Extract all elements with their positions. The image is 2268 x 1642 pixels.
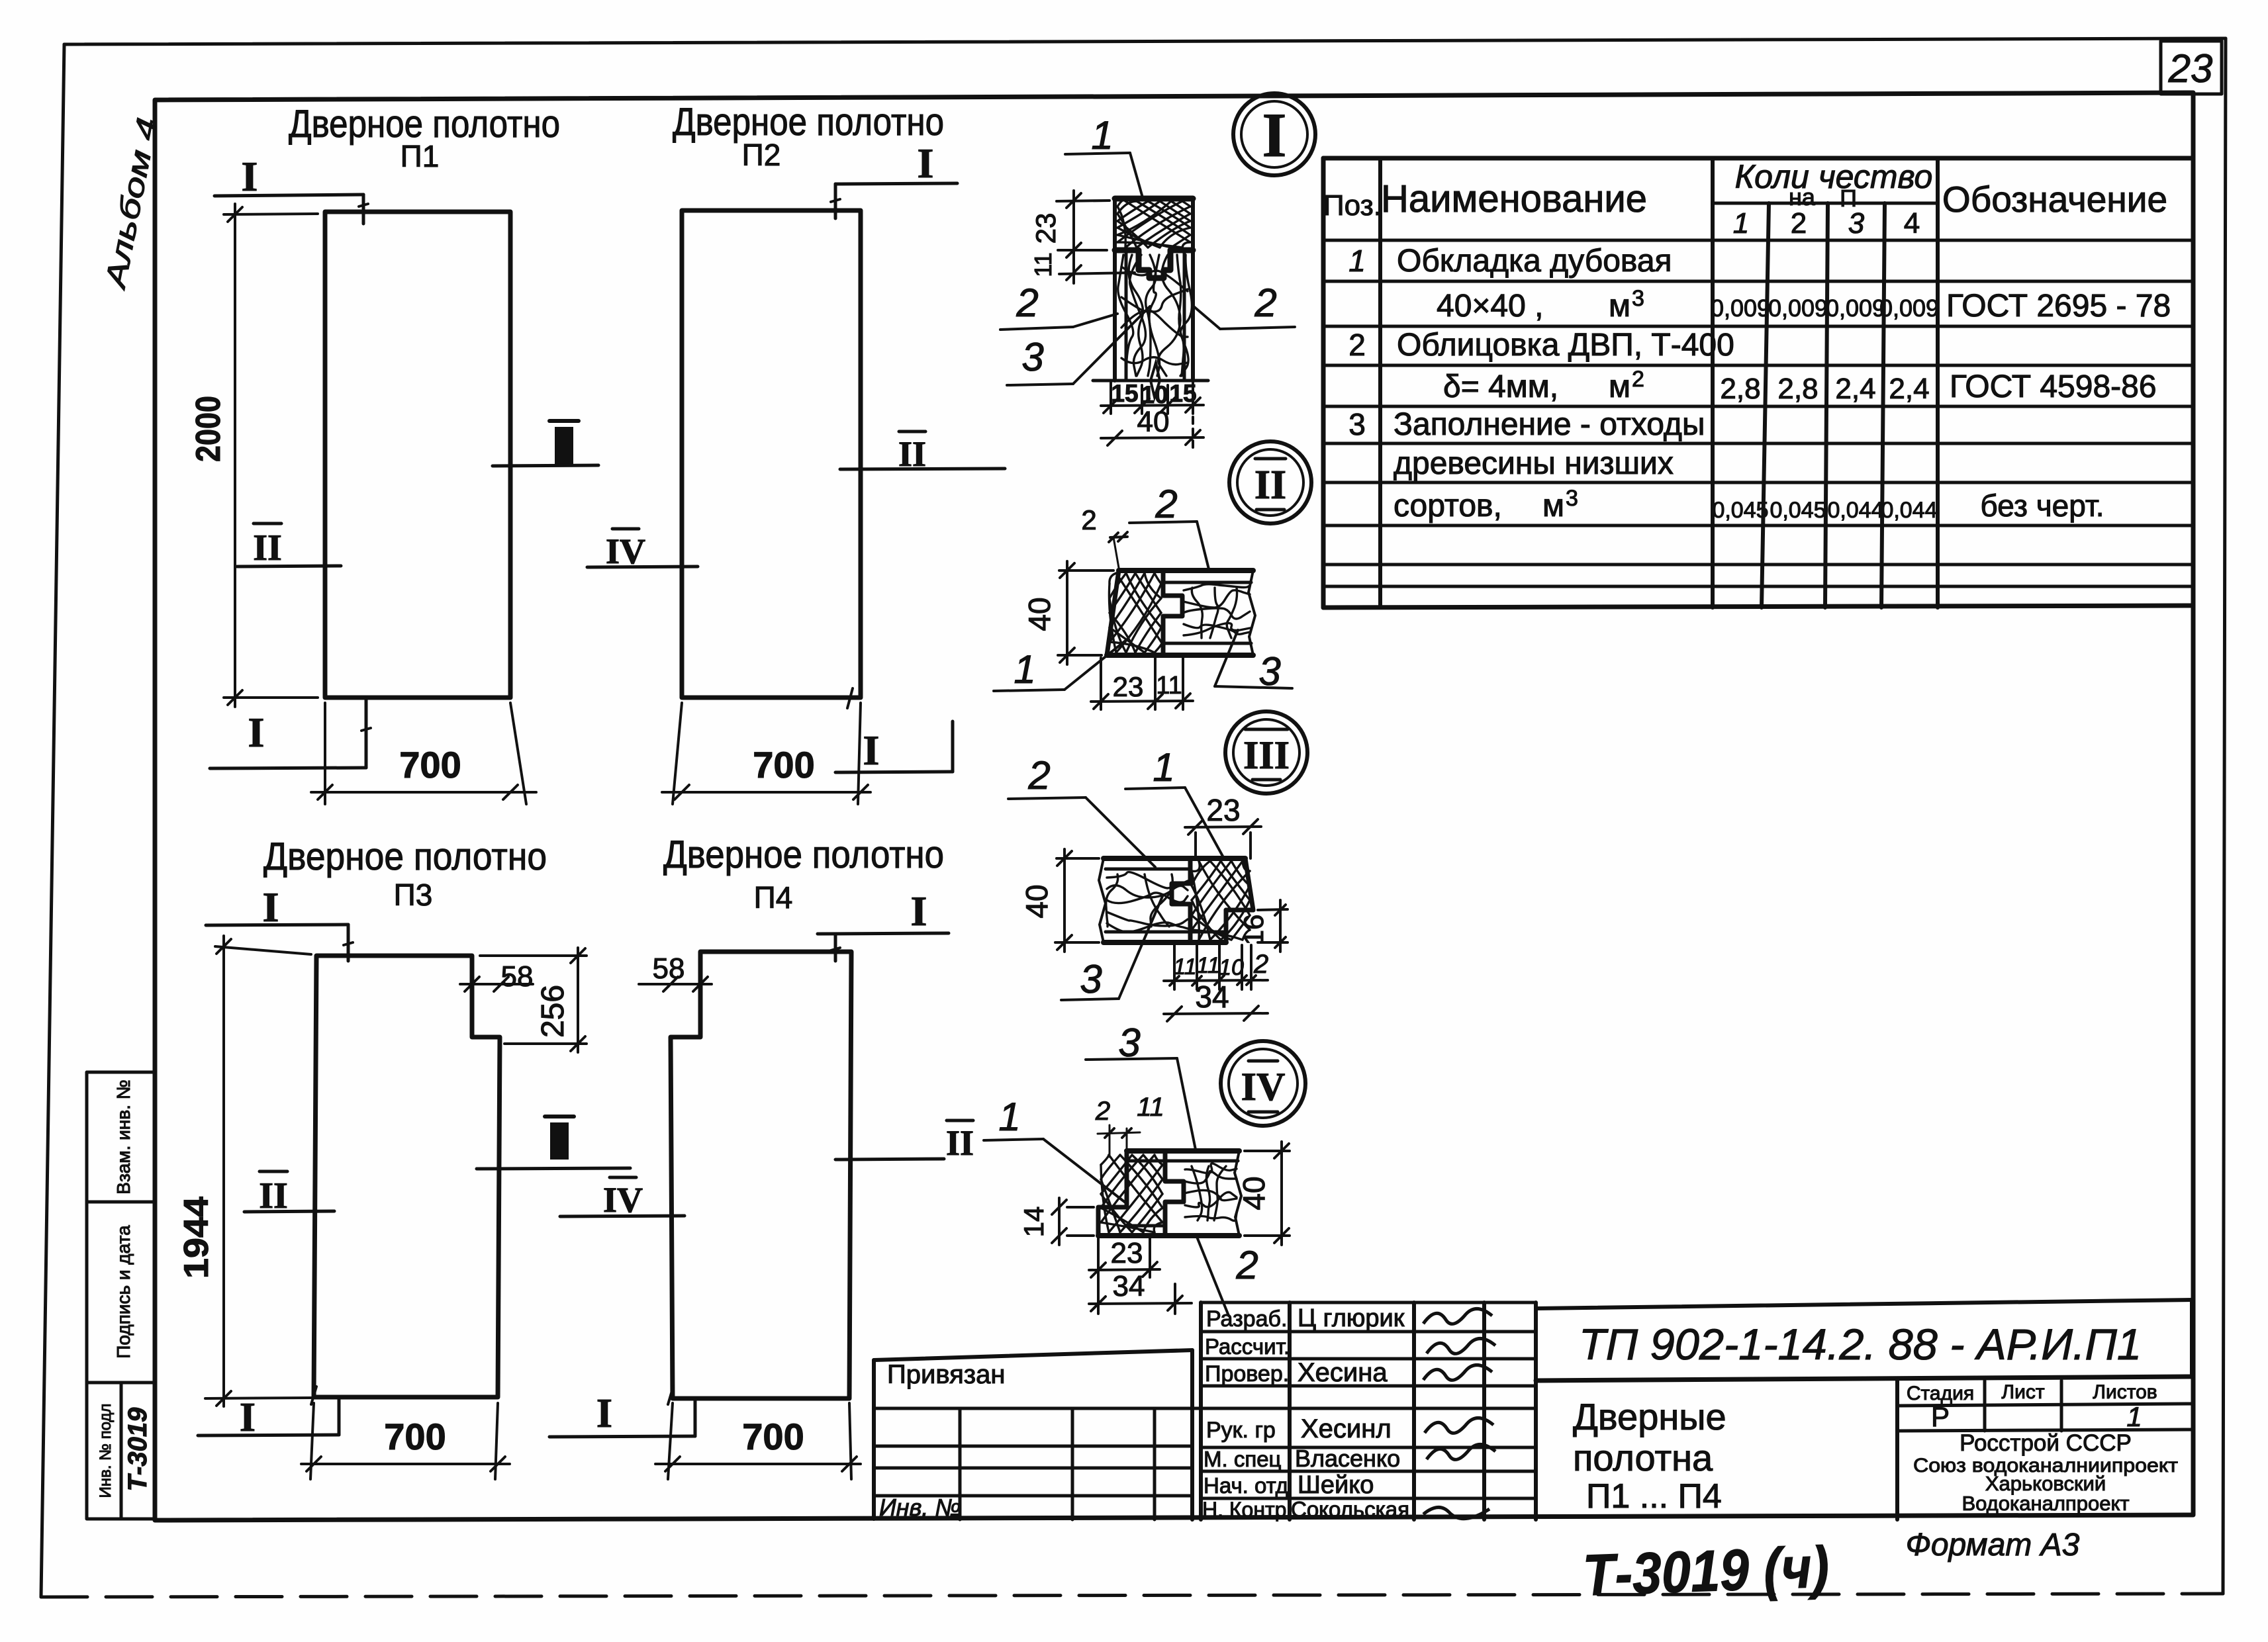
detail IV dims 2 and 11 (1095, 1093, 1164, 1157)
svg-text:23: 23 (1111, 1237, 1143, 1269)
svg-text:40: 40 (1022, 597, 1057, 631)
svg-text:2: 2 (1235, 1243, 1258, 1287)
detail I cap crosshatch grain (1117, 200, 1190, 248)
svg-text:10: 10 (1141, 381, 1168, 408)
svg-text:0,044: 0,044 (1881, 498, 1937, 523)
svg-text:11: 11 (1137, 1093, 1164, 1122)
table row 2: 40x40 м3 with quantities and ГОСТ 2695-78 (1437, 286, 2171, 324)
section mark II (П2) (840, 432, 1005, 474)
detail IV dim 14 (1018, 1198, 1094, 1245)
svg-text:Провер.: Провер. (1205, 1361, 1289, 1387)
svg-text:15: 15 (1169, 380, 1196, 407)
svg-text:Коли чество: Коли чество (1735, 158, 1933, 195)
left column box (87, 1072, 155, 1519)
привязн box (874, 1350, 1201, 1520)
svg-text:Обозначение: Обозначение (1942, 179, 2167, 220)
svg-text:2000: 2000 (189, 396, 228, 462)
svg-text:23: 23 (1030, 213, 1061, 244)
label Инв. № подл (97, 1404, 115, 1498)
detail II block outline (1107, 570, 1255, 655)
outer border bottom (dashed) (41, 1594, 2223, 1597)
стадия лист листов headers (1907, 1381, 2157, 1432)
detail II dim 2 (1081, 504, 1127, 568)
detail IV filling grain (1185, 1163, 1237, 1221)
svg-text:Взам. инв. №: Взам. инв. № (113, 1079, 134, 1194)
svg-text:полотна: полотна (1573, 1437, 1713, 1479)
detail I leader 2 right (1193, 281, 1295, 329)
section mark II (П3) (244, 1171, 334, 1216)
door П4 title (663, 833, 944, 915)
svg-text:700: 700 (384, 1416, 446, 1457)
section mark II (П1) (237, 524, 341, 569)
svg-text:Формат А3: Формат А3 (1906, 1528, 2080, 1563)
svg-text:23: 23 (1113, 671, 1144, 702)
svg-text:Дверное полотно: Дверное полотно (673, 101, 944, 144)
svg-text:I: I (1262, 100, 1287, 170)
section mark I top (П2) (831, 140, 957, 218)
handwritten Т-3019 (rotated) (123, 1407, 152, 1491)
section mark I bottom (П3) (198, 1387, 339, 1440)
svg-text:2: 2 (1348, 328, 1366, 362)
detail II oak grain (1109, 573, 1162, 653)
section mark IV (П3/П4) (560, 1177, 685, 1220)
svg-text:ТП 902-1-14.2. 88 - АР.И.П1: ТП 902-1-14.2. 88 - АР.И.П1 (1579, 1320, 2142, 1369)
detail I oak cap with T-groove (1115, 250, 1193, 278)
stamp signatures (1423, 1308, 1495, 1518)
section mark III filled (П3) (477, 1117, 630, 1169)
table row 5: Заполнение - отходы (1348, 407, 1705, 442)
svg-text:древесины низших: древесины низших (1394, 446, 1674, 481)
drawing title Дверные полотна П1...П4 (1573, 1396, 1726, 1516)
svg-text:2: 2 (1254, 281, 1276, 325)
door П2 title (673, 101, 944, 172)
outer border left (41, 44, 64, 1597)
svg-text:П1: П1 (401, 139, 440, 173)
svg-text:Инв. №: Инв. № (879, 1494, 961, 1521)
svg-text:23: 23 (1206, 793, 1240, 827)
svg-text:Хесинл: Хесинл (1301, 1414, 1392, 1443)
detail IV oak piece with tenon (1165, 1152, 1184, 1234)
svg-text:1: 1 (998, 1095, 1020, 1139)
svg-text:Подпись и дата: Подпись и дата (113, 1225, 134, 1359)
svg-text:Наименование: Наименование (1381, 177, 1647, 220)
detail IV leader 3 (1086, 1021, 1196, 1150)
detail I body wood grain (1118, 255, 1192, 376)
svg-text:м: м (1609, 369, 1630, 404)
svg-text:11: 11 (1196, 953, 1219, 978)
svg-text:700: 700 (399, 744, 461, 786)
svg-text:П4: П4 (754, 880, 793, 915)
door П1 outline (325, 212, 510, 698)
detail III block outline (1099, 858, 1253, 942)
svg-text:Хесина: Хесина (1298, 1358, 1388, 1387)
dimension 58 (П3 notch width) (460, 960, 533, 993)
svg-text:Нач. отд: Нач. отд (1204, 1473, 1288, 1498)
svg-text:I: I (596, 1391, 612, 1436)
svg-text:3: 3 (1848, 207, 1865, 240)
svg-text:700: 700 (742, 1416, 804, 1457)
svg-text:0,045: 0,045 (1770, 498, 1826, 523)
svg-text:2: 2 (1632, 367, 1644, 392)
svg-text:IV: IV (1241, 1065, 1286, 1109)
svg-text:I: I (248, 709, 265, 756)
label Взам. инв. № (113, 1079, 134, 1194)
detail IV oak grain (1101, 1155, 1162, 1232)
svg-text:Поз.: Поз. (1323, 189, 1382, 222)
door П3 title (263, 835, 547, 912)
svg-text:3: 3 (1566, 486, 1578, 511)
svg-text:0,009: 0,009 (1826, 295, 1885, 322)
detail IV block outline (1098, 1151, 1241, 1236)
section detail I circled label (1233, 93, 1315, 175)
detail I dim 40 (1101, 406, 1204, 449)
svg-text:1944: 1944 (177, 1197, 216, 1279)
svg-text:1: 1 (1733, 207, 1749, 240)
table header Поз. (1323, 189, 1382, 222)
svg-text:2: 2 (1155, 482, 1177, 526)
section detail II circled label (1229, 441, 1311, 524)
svg-text:Дверное полотно: Дверное полотно (263, 835, 547, 878)
svg-text:Привязан: Привязан (887, 1360, 1005, 1389)
svg-text:1: 1 (1091, 113, 1113, 158)
detail IV dims 23 and 34 (1089, 1237, 1192, 1314)
detail III leader 1 (1125, 745, 1225, 860)
svg-text:Ц глюрик: Ц глюрик (1298, 1304, 1405, 1332)
detail III oak grain (1192, 861, 1250, 940)
svg-text:0,009: 0,009 (1711, 295, 1770, 322)
detail I leader 3 (1007, 306, 1150, 385)
svg-text:16: 16 (1238, 915, 1269, 946)
svg-text:2: 2 (1027, 753, 1050, 798)
dimension 2000 (П1 height) (189, 204, 318, 707)
svg-text:4: 4 (1904, 207, 1920, 240)
svg-text:2: 2 (1081, 504, 1096, 535)
svg-text:Водоканалпроект: Водоканалпроект (1961, 1492, 2129, 1515)
dimension 700 (П1 width) (311, 703, 536, 804)
table row 4: б=4мм м2 with quantities and ГОСТ 4598-86 (1443, 367, 2157, 405)
svg-text:3: 3 (1632, 286, 1644, 311)
label Подпись и дата (113, 1225, 134, 1359)
section detail III circled label (1225, 711, 1307, 794)
svg-text:М. спец: М. спец (1204, 1447, 1282, 1471)
dimension 1944 (П3 height) (177, 936, 311, 1406)
svg-text:0,009: 0,009 (1768, 295, 1828, 322)
outer border top (64, 38, 2226, 44)
svg-text:Дверное полотно: Дверное полотно (663, 833, 944, 876)
handwritten stamp Т-3019 (4) (1582, 1534, 1830, 1608)
section mark I top (П4) (818, 888, 949, 961)
table row 3: Облицовка ДВП, Т-400 (1348, 328, 1734, 363)
svg-text:40: 40 (1137, 406, 1170, 438)
table header Обозначение (1942, 179, 2167, 220)
dimension 700 (П3 width) (301, 1403, 510, 1479)
detail I leader 1 (1065, 113, 1143, 200)
detail II facing strips (1163, 582, 1251, 643)
svg-text:Росстрой СССР: Росстрой СССР (1960, 1430, 2132, 1456)
svg-text:П1 ... П4: П1 ... П4 (1586, 1477, 1722, 1516)
svg-text:на: на (1789, 183, 1816, 210)
door П4 outline (notch top-left) (671, 952, 851, 1398)
detail III facing strips (1106, 869, 1225, 932)
svg-text:ГОСТ 2695 - 78: ГОСТ 2695 - 78 (1946, 289, 2171, 324)
svg-text:II: II (1254, 463, 1286, 508)
svg-text:П3: П3 (394, 878, 433, 912)
detail III oak piece (1172, 860, 1190, 941)
album note: Альбом 4 (rotated) (99, 115, 164, 293)
svg-text:34: 34 (1195, 980, 1229, 1014)
svg-text:Листов: Листов (2093, 1381, 2157, 1403)
svg-text:Т-3019 (ч): Т-3019 (ч) (1582, 1534, 1830, 1608)
section mark II (П4) (835, 1120, 974, 1163)
svg-text:15: 15 (1111, 380, 1138, 407)
section mark I top (П1) (214, 153, 368, 224)
svg-text:Заполнение - отходы: Заполнение - отходы (1394, 407, 1705, 442)
specification table grid (1323, 158, 2193, 608)
svg-text:34: 34 (1113, 1270, 1145, 1302)
detail IV facing strips (1129, 1161, 1238, 1226)
detail IV leader 1 (984, 1095, 1125, 1203)
table header Количество на П (1735, 158, 1933, 212)
document number ТП 902-1-14.2.88-АР.И.П1 (1579, 1320, 2142, 1369)
svg-text:Рассчит.: Рассчит. (1205, 1334, 1290, 1359)
door П2 outline (682, 210, 861, 698)
svg-text:14: 14 (1018, 1207, 1049, 1238)
organization lines (1913, 1430, 2178, 1515)
section mark IV (П2) (587, 529, 698, 571)
svg-text:Шейко: Шейко (1298, 1471, 1374, 1499)
инв № label (879, 1494, 961, 1521)
svg-text:40: 40 (1237, 1176, 1271, 1210)
section mark I top (П3) (206, 884, 353, 961)
detail II leader 1 (994, 641, 1125, 692)
svg-text:Т-3019: Т-3019 (123, 1407, 152, 1491)
привязн label (887, 1360, 1005, 1389)
svg-text:II: II (253, 527, 282, 569)
svg-text:700: 700 (753, 744, 814, 786)
detail II leader 2 (1129, 482, 1209, 569)
detail II dims 23 11 (1091, 658, 1193, 709)
stamp names (1291, 1304, 1409, 1522)
svg-text:ГОСТ 4598-86: ГОСТ 4598-86 (1950, 369, 2157, 404)
section mark I bottom (П1) (210, 699, 371, 768)
detail III dim 34 (1164, 980, 1268, 1021)
table header Наименование (1381, 177, 1647, 220)
detail II dim 40 (1022, 561, 1113, 664)
svg-text:Инв. № подл: Инв. № подл (97, 1404, 115, 1498)
detail I dims 15 10 15 (1101, 380, 1204, 414)
svg-text:Обкладка дубовая: Обкладка дубовая (1397, 244, 1672, 279)
svg-text:3: 3 (1080, 957, 1102, 1001)
svg-text:2,8: 2,8 (1777, 373, 1818, 405)
svg-text:1: 1 (1153, 745, 1174, 790)
detail III dim 40 (1019, 849, 1099, 952)
svg-text:2: 2 (1253, 950, 1268, 979)
svg-text:м: м (1542, 488, 1564, 524)
svg-text:Облицовка ДВП, Т-400: Облицовка ДВП, Т-400 (1397, 328, 1734, 363)
svg-text:Разраб.: Разраб. (1206, 1306, 1287, 1332)
svg-text:0,044: 0,044 (1827, 498, 1883, 523)
detail III leader 2 (1008, 753, 1155, 867)
detail IV dim 40 (1237, 1142, 1290, 1245)
door П3 outline (notch top-right) (314, 956, 500, 1397)
dimension 58 (П4 notch width) (639, 952, 712, 991)
table row 6: древесины низших (1394, 446, 1674, 481)
table subheader 1 2 3 4 (1733, 207, 1920, 240)
dimension 256 (П3 notch height) (480, 948, 587, 1052)
svg-text:3: 3 (1021, 335, 1043, 379)
sheet number box 23 (2161, 41, 2222, 94)
svg-text:м: м (1609, 289, 1630, 324)
detail I hardboard facings (1126, 251, 1184, 379)
section mark III filled (П1) (493, 421, 598, 466)
detail I dim 23 (1030, 191, 1110, 259)
svg-text:58: 58 (653, 952, 685, 985)
svg-text:I: I (918, 140, 934, 187)
svg-text:2: 2 (1016, 281, 1038, 325)
detail III dim 23 top (1185, 793, 1261, 858)
door П1 title (289, 103, 560, 173)
svg-text:IV: IV (603, 1180, 643, 1220)
detail III dims 11 11 10 2 (1164, 945, 1268, 989)
svg-text:23: 23 (2168, 46, 2213, 91)
svg-text:1: 1 (2126, 1401, 2142, 1432)
svg-text:без черт.: без черт. (1980, 488, 2104, 523)
svg-text:Н. Контр.: Н. Контр. (1202, 1498, 1292, 1522)
dimension 700 (П2 width) (662, 703, 871, 804)
svg-text:II: II (946, 1123, 974, 1163)
detail II oak piece with tenon (1163, 572, 1182, 654)
svg-text:40×40 ,: 40×40 , (1437, 289, 1543, 324)
svg-text:Власенко: Власенко (1295, 1445, 1400, 1472)
svg-text:2: 2 (1791, 207, 1807, 240)
svg-text:Рук. гр: Рук. гр (1206, 1418, 1276, 1443)
detail III dim 16 (1238, 900, 1288, 952)
detail I block outline (1093, 199, 1208, 397)
svg-text:1: 1 (1348, 244, 1366, 278)
svg-text:Р: Р (1931, 1401, 1950, 1432)
svg-text:сортов,: сортов, (1394, 488, 1502, 524)
svg-text:δ= 4мм,: δ= 4мм, (1443, 369, 1558, 404)
section detail IV circled label (1221, 1041, 1305, 1126)
svg-text:I: I (863, 727, 880, 774)
detail I leader 2 left (1000, 281, 1117, 330)
svg-text:11: 11 (1156, 672, 1182, 700)
svg-text:3: 3 (1348, 407, 1366, 441)
detail II filling grain (1184, 584, 1250, 638)
svg-text:58: 58 (501, 960, 534, 993)
stamp role labels (1202, 1306, 1292, 1522)
svg-text:0,045: 0,045 (1712, 498, 1768, 523)
svg-text:2,8: 2,8 (1720, 373, 1760, 405)
svg-text:11: 11 (1029, 252, 1057, 277)
title block stamp grid (1201, 1300, 2192, 1520)
svg-text:III: III (1243, 733, 1290, 777)
svg-text:П2: П2 (742, 138, 781, 172)
svg-text:2: 2 (1095, 1097, 1110, 1126)
detail II leader 3 (1215, 630, 1292, 694)
svg-text:11: 11 (1173, 954, 1196, 980)
section mark I bottom (П4) (549, 1387, 695, 1437)
dimension 700 (П4 width) (655, 1403, 861, 1479)
section mark I bottom (П2) (835, 688, 953, 774)
формат А3 (1906, 1528, 2080, 1563)
svg-text:Дверные: Дверные (1573, 1396, 1726, 1437)
svg-text:40: 40 (1019, 884, 1054, 918)
table row 7: сортов м3 with quantities and без черт. (1394, 486, 2104, 524)
svg-text:2,4: 2,4 (1889, 373, 1929, 405)
svg-text:256: 256 (536, 985, 571, 1038)
inner drawing frame (155, 93, 2193, 1520)
svg-text:Сокольская: Сокольская (1291, 1497, 1409, 1522)
detail III leader 3 (1061, 895, 1163, 1001)
svg-text:10: 10 (1219, 955, 1244, 980)
table row 1: Обкладка дубовая (1348, 244, 1672, 279)
svg-text:1: 1 (1014, 647, 1035, 692)
detail III filling grain (1106, 872, 1188, 933)
outer border right (2223, 38, 2226, 1594)
detail I dim 11 (1029, 250, 1135, 283)
svg-text:I: I (240, 1395, 256, 1440)
svg-text:I: I (242, 153, 258, 200)
svg-text:IV: IV (606, 531, 645, 571)
svg-text:I: I (911, 888, 927, 935)
detail IV leader 2 (1197, 1237, 1258, 1316)
svg-text:2,4: 2,4 (1835, 373, 1875, 405)
svg-text:0,009: 0,009 (1879, 295, 1939, 322)
svg-text:Лист: Лист (2001, 1381, 2044, 1403)
